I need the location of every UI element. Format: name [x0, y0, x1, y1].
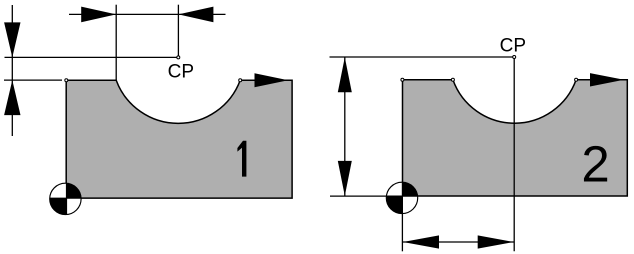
svg-text:2: 2 [581, 136, 609, 193]
vertical dim line left of part 1 [11, 5, 13, 136]
arrowhead pointing left (tip x=402.9) [403, 235, 439, 248]
datum origin symbol part 2 [386, 182, 417, 213]
arrowhead pointing up (tip at y=80.1) [4, 80, 20, 115]
arrowhead pointing up (tip y=57) [338, 57, 352, 92]
arrowhead top-right (points left at x=178) [178, 7, 213, 23]
node circle part2 top-left corner [401, 78, 404, 81]
svg-text:CP: CP [168, 62, 194, 83]
arrowhead pointing down (tip at y=57.4) [4, 22, 20, 57]
node circle part1 top-left corner [65, 79, 68, 82]
label 1 (Arial-style digit drawn as path, no foot serif) [237, 141, 246, 177]
feed direction arrow part 2 [590, 73, 624, 86]
dim line top (part 1 horizontal dimension) [69, 13, 226, 15]
feed direction arrow part 1 [255, 73, 289, 87]
datum origin symbol part 1 [50, 183, 81, 214]
horizontal extension line at CP height y=57 [330, 56, 515, 58]
extension line CP leader x=178 [177, 5, 179, 58]
node circle part1 notch right edge [239, 79, 242, 82]
horizontal extension line at part1 top edge y=80.1 [4, 79, 62, 81]
node circle CP part1 [177, 56, 180, 59]
CP vertical line part 2 [513, 57, 515, 251]
arrowhead pointing down (tip y=196) [338, 161, 352, 196]
arrowhead pointing right (tip x=513.8) [478, 235, 514, 248]
node circle part2 notch left edge [451, 78, 454, 81]
part 1 body (gray block with circular notch) [66, 80, 292, 198]
node circle part2 notch right edge [575, 78, 578, 81]
arrowhead top-left (points right at x=116) [81, 7, 116, 23]
vertical dim line left of part 2 [344, 57, 346, 196]
horizontal extension line at part2 bottom y=196.1 [330, 195, 402, 197]
node circle CP part2 [513, 56, 516, 59]
svg-text:CP: CP [500, 36, 526, 57]
part 2 body (gray block with circular notch) [403, 80, 628, 196]
horizontal extension line at CP height y=57.4 [5, 56, 179, 58]
bottom dim line part 2 [402, 241, 514, 243]
extension line below part2 left edge [401, 196, 403, 251]
extension line at notch left edge x=116 [115, 5, 117, 81]
